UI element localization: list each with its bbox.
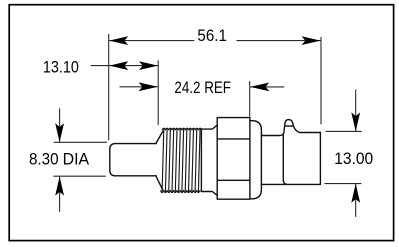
svg-text:13.10: 13.10: [43, 59, 79, 77]
svg-text:56.1: 56.1: [197, 27, 227, 45]
svg-text:DIA: DIA: [63, 150, 90, 168]
svg-text:24.2 REF: 24.2 REF: [174, 79, 231, 97]
svg-text:13.00: 13.00: [334, 150, 373, 168]
svg-text:8.30: 8.30: [29, 150, 59, 168]
